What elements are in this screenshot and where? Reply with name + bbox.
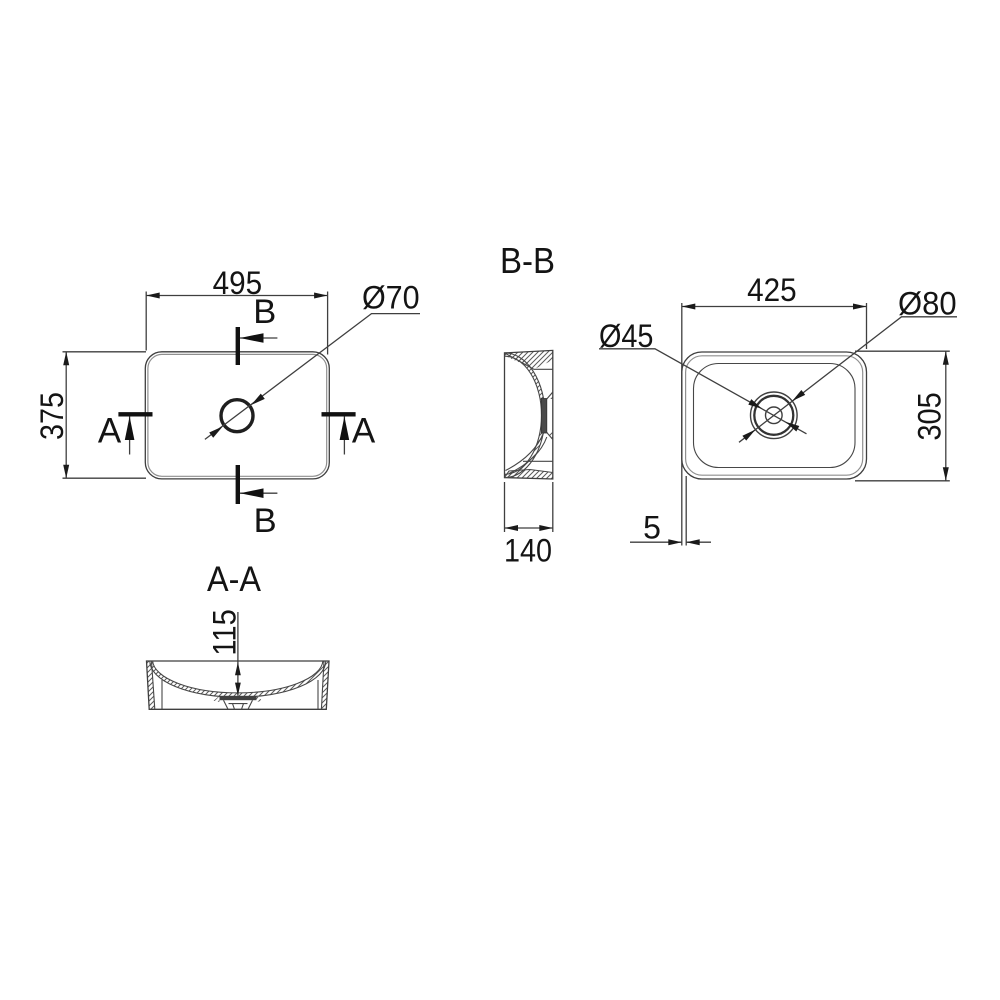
- svg-text:B-B: B-B: [500, 240, 555, 281]
- svg-text:A: A: [98, 411, 122, 450]
- svg-text:140: 140: [504, 533, 552, 569]
- svg-text:305: 305: [912, 392, 948, 440]
- svg-text:375: 375: [34, 392, 70, 440]
- svg-text:Ø70: Ø70: [362, 280, 420, 316]
- svg-text:B: B: [254, 502, 277, 540]
- svg-text:B: B: [253, 293, 276, 331]
- svg-text:Ø80: Ø80: [898, 286, 957, 322]
- svg-text:5: 5: [643, 509, 661, 545]
- svg-text:Ø45: Ø45: [599, 318, 654, 354]
- svg-text:115: 115: [207, 609, 243, 655]
- svg-text:A: A: [352, 411, 376, 450]
- svg-text:425: 425: [747, 272, 797, 308]
- svg-text:A-A: A-A: [207, 560, 262, 599]
